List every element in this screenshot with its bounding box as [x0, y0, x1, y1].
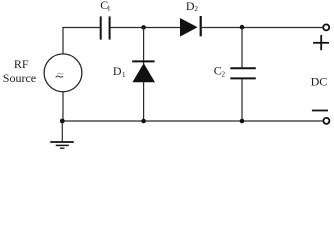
- label RF Source: [3, 57, 36, 85]
- node D junction dot (bottom of C2): [240, 119, 245, 124]
- RF source sine mark: [56, 73, 64, 77]
- svg-text:Source: Source: [3, 71, 36, 85]
- wire C2 branch vertical upper: [241, 28, 243, 69]
- svg-text:2: 2: [194, 4, 198, 13]
- svg-text:1: 1: [107, 4, 111, 13]
- capacitor C2: [230, 68, 256, 78]
- terminal - (open circle): [323, 118, 329, 124]
- node C junction dot (bottom of D1): [141, 119, 146, 124]
- label D1: [113, 64, 126, 79]
- ground: [50, 121, 74, 148]
- RF source V1 circle: [44, 54, 82, 92]
- wire top-left from source top to C1: [63, 28, 100, 55]
- label minus: [312, 110, 328, 112]
- diode D1: [132, 61, 155, 82]
- terminal + (open circle): [323, 24, 329, 30]
- wire from D2 cathode to + terminal: [202, 27, 323, 29]
- wire from C1 to D2 anode: [111, 27, 180, 29]
- node A junction dot (top of D1): [141, 25, 146, 30]
- wire D1 branch vertical: [143, 28, 145, 122]
- svg-text:D: D: [113, 64, 122, 78]
- label DC: [311, 74, 328, 88]
- capacitor C1: [101, 16, 110, 39]
- label D2: [186, 0, 198, 13]
- node B junction dot (top of C2): [240, 25, 245, 30]
- label C1: [100, 0, 111, 13]
- diode D2: [180, 16, 201, 37]
- svg-text:DC: DC: [311, 74, 328, 88]
- node G junction dot (source/ground): [60, 119, 65, 124]
- label C2: [214, 64, 226, 79]
- svg-text:2: 2: [221, 70, 225, 79]
- label +: [313, 35, 329, 50]
- wire bottom rail: [62, 120, 323, 122]
- svg-text:RF: RF: [14, 57, 29, 71]
- wire C2 branch vertical lower: [241, 79, 243, 121]
- svg-text:1: 1: [122, 70, 126, 79]
- wire source bottom vertical: [62, 92, 64, 121]
